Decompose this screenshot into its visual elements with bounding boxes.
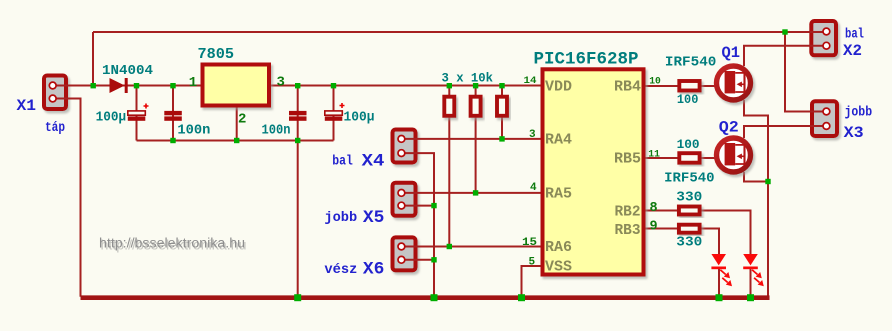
svg-text:X5: X5 — [363, 208, 385, 228]
ground rail bottom — [81, 295, 770, 300]
wire C3 branch and ground drop — [297, 86, 299, 297]
wire R2 drop to RA5 — [475, 86, 477, 193]
svg-text:100: 100 — [677, 92, 699, 107]
wire middle ground rail — [137, 140, 334, 142]
svg-text:X4: X4 — [362, 152, 385, 172]
capacitor C2 100n — [164, 111, 182, 121]
svg-text:vész: vész — [324, 262, 357, 278]
node main/top riser — [91, 83, 96, 88]
wire RB5 to gate R — [645, 157, 716, 159]
wire C1 branch — [136, 86, 138, 141]
svg-text:4: 4 — [530, 182, 537, 194]
node Q1 Q2 sources — [765, 179, 770, 184]
wire X6 pin2 — [401, 259, 434, 261]
resistor R5 100 (Q2 gate) — [679, 153, 699, 163]
wire Q1 source — [744, 100, 768, 182]
wire C4 branch — [333, 86, 335, 141]
resistor R7 330 (RB3) — [679, 225, 700, 233]
svg-text:RB4: RB4 — [614, 78, 641, 95]
wire R3 drop to RA4 — [501, 86, 503, 139]
wire Q2 source — [744, 172, 768, 182]
node X6 pin2 gnd — [431, 257, 436, 262]
X3 pins — [823, 108, 830, 115]
wire top rail to X3 pin1 — [785, 32, 826, 112]
wire R1 drop to RA6 — [448, 86, 450, 247]
node gnd rail C3 — [294, 294, 301, 301]
resistor R6 330 (RB2) — [679, 207, 700, 215]
node X5 pin2 gnd — [431, 203, 436, 208]
wire net RA4 — [401, 138, 540, 140]
svg-text:RB3: RB3 — [615, 222, 641, 239]
connector X1 (táp) — [44, 76, 66, 110]
svg-text:RA6: RA6 — [545, 239, 572, 256]
node R1 RA6 — [447, 244, 452, 249]
X6 pins — [398, 243, 405, 250]
svg-text:5: 5 — [529, 256, 536, 268]
svg-text:1N4004: 1N4004 — [102, 63, 153, 79]
wire riser from main node to top rail — [92, 32, 94, 86]
connector X4 (bal) — [393, 130, 416, 163]
diode D1 1N4004 — [110, 78, 128, 93]
svg-text:8: 8 — [650, 201, 658, 216]
resistor R3 10k — [497, 97, 507, 116]
svg-text:3: 3 — [529, 129, 536, 141]
svg-text:1: 1 — [189, 75, 197, 91]
LED1 (left) — [711, 254, 732, 286]
capacitor C3 100n — [289, 111, 307, 121]
wire 7805 pin2 stub — [236, 108, 238, 141]
wire RB3 to LED1 — [645, 229, 719, 255]
wire Q1 drain to X2 — [744, 46, 826, 66]
transistor Q2 IRF540 — [717, 138, 751, 172]
svg-text:http://bsselektronika.hu: http://bsselektronika.hu — [99, 236, 245, 251]
wire Q2 drain to X3 — [744, 126, 826, 138]
node 7805 pin2 gnd — [234, 138, 239, 143]
wire X4 pin2 to ground — [401, 153, 434, 297]
svg-text:IRF540: IRF540 — [665, 55, 717, 71]
X5 pins — [398, 190, 405, 197]
svg-text:bal: bal — [845, 28, 864, 43]
node top rail to X3 — [782, 29, 787, 34]
svg-text:RA5: RA5 — [545, 186, 572, 203]
resistor R4 100 (Q1 gate) — [679, 81, 699, 91]
svg-text:330: 330 — [676, 235, 702, 251]
connector X5 (jobb) — [393, 183, 416, 216]
node gnd rail X conn — [431, 294, 438, 301]
wire LED2 cathode — [750, 268, 752, 297]
svg-text:330: 330 — [676, 190, 702, 206]
IC U1 PIC16F628P — [543, 69, 644, 274]
svg-text:100µ: 100µ — [344, 110, 375, 125]
connector X3 (jobb out) — [812, 101, 837, 136]
svg-text:IRF540: IRF540 — [664, 170, 715, 186]
svg-text:bal: bal — [332, 154, 353, 170]
node gnd rail LED2 — [747, 294, 754, 301]
svg-text:14: 14 — [524, 75, 537, 87]
wire C2 branch — [172, 86, 174, 141]
svg-text:jobb: jobb — [324, 210, 357, 226]
svg-text:RA4: RA4 — [545, 132, 572, 149]
wire RB4 to gate R — [645, 85, 716, 87]
svg-text:15: 15 — [522, 237, 537, 249]
resistor R1 10k — [444, 97, 454, 116]
capacitor C1 100u polarized — [128, 104, 149, 121]
capacitor C4 100u polarized — [325, 103, 345, 121]
node C3 bottom — [295, 138, 300, 143]
node C2 bottom — [170, 138, 175, 143]
X2 pins — [823, 28, 830, 35]
node gnd rail VSS — [518, 294, 525, 301]
svg-text:táp: táp — [45, 120, 65, 136]
node R3 top — [499, 83, 504, 88]
svg-text:100: 100 — [677, 137, 700, 152]
junction nodes — [91, 29, 788, 301]
resistor R2 10k — [471, 97, 481, 116]
svg-text:10: 10 — [649, 75, 661, 87]
svg-text:VSS: VSS — [545, 259, 572, 276]
connector X6 (vész) — [393, 237, 416, 270]
wire X1 pin2 to ground rail — [53, 99, 81, 297]
svg-text:100n: 100n — [177, 123, 210, 139]
svg-text:X2: X2 — [843, 42, 862, 60]
watermark http://bsselektronika.hu — [99, 236, 247, 253]
node R1 top — [447, 83, 452, 88]
node gnd rail LED1 — [716, 294, 723, 301]
svg-text:RB5: RB5 — [614, 151, 641, 168]
node C3 top — [295, 83, 300, 88]
svg-text:2: 2 — [238, 112, 246, 128]
wire RB2 to LED2 — [645, 211, 751, 255]
svg-text:X6: X6 — [363, 260, 385, 280]
svg-text:Q1: Q1 — [722, 44, 741, 62]
node C1 top — [134, 83, 139, 88]
connector pin circles — [49, 28, 830, 263]
node R2 RA5 — [473, 190, 478, 195]
node C2 top — [170, 83, 175, 88]
svg-text:Q2: Q2 — [719, 119, 739, 137]
wire X5 pin2 — [401, 205, 434, 207]
svg-text:VDD: VDD — [545, 78, 572, 95]
svg-text:100n: 100n — [262, 123, 291, 139]
LED2 (right) — [743, 254, 764, 286]
wire sources to ground rail — [767, 182, 769, 298]
wire X1 pin1 to 7805 pin1 — [53, 85, 201, 87]
svg-text:11: 11 — [648, 149, 660, 161]
svg-text:X1: X1 — [17, 97, 37, 115]
wire net RA5 — [401, 192, 540, 194]
node R2 top — [473, 83, 478, 88]
node R3 RA4 — [499, 136, 504, 141]
svg-text:RB2: RB2 — [615, 203, 641, 220]
wire VSS to ground — [522, 266, 541, 297]
X4 pins — [398, 136, 405, 143]
wire VCC top rail — [93, 31, 826, 33]
svg-text:9: 9 — [650, 219, 658, 234]
svg-text:PIC16F628P: PIC16F628P — [534, 49, 639, 69]
transistor Q1 IRF540 — [717, 66, 751, 100]
svg-text:7805: 7805 — [198, 46, 235, 63]
svg-text:jobb: jobb — [845, 105, 873, 120]
node C4 top — [331, 83, 336, 88]
svg-text:100µ: 100µ — [96, 110, 127, 125]
svg-text:X3: X3 — [844, 124, 864, 142]
regulator U2 7805 — [203, 65, 270, 106]
wire net RA6 — [401, 246, 540, 248]
X1 pins — [49, 82, 56, 89]
svg-text:3: 3 — [277, 74, 285, 90]
wire LED1 cathode — [718, 268, 720, 297]
connector X2 (bal out) — [811, 21, 836, 55]
svg-text:3 x 10k: 3 x 10k — [442, 71, 494, 86]
wire 7805 pin3 to PIC VDD — [271, 85, 541, 87]
